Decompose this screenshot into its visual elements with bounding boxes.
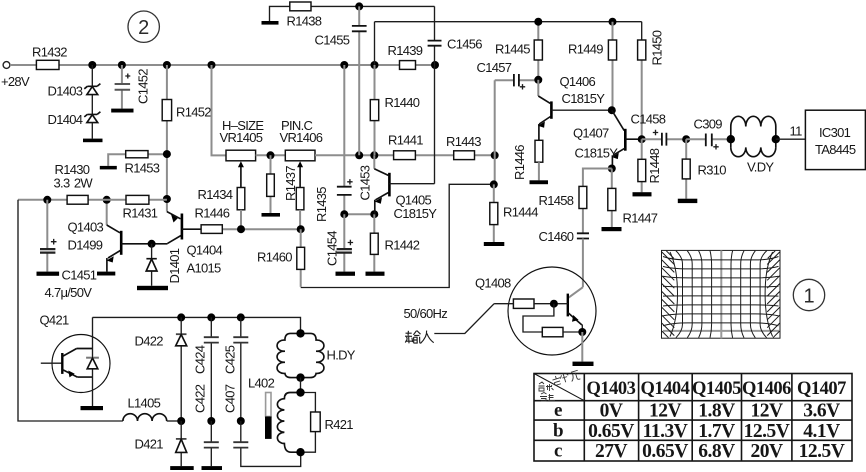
svg-text:50/60Hz: 50/60Hz <box>404 306 448 321</box>
svg-text:R310: R310 <box>698 163 727 178</box>
wire base line y=229 Q1404 <box>222 228 300 230</box>
node R1435/R1460 dot <box>297 225 305 233</box>
node C1457/R1444/base-line dot <box>490 180 498 188</box>
svg-text:R1453: R1453 <box>125 161 160 176</box>
table header diagonal text 管脚号 <box>552 369 581 386</box>
ground for C1451 <box>37 272 60 276</box>
node 50/60Hz input <box>404 304 495 334</box>
diode D1401 <box>146 244 182 286</box>
resistor R1442 <box>370 214 419 271</box>
node circled 2 marker <box>128 11 159 42</box>
node R1437 tap <box>267 151 275 159</box>
ground for R1444 <box>484 242 505 246</box>
node V.DY right dot <box>772 135 780 143</box>
node dots on y=317.4 rail <box>177 313 245 321</box>
resistor R1432 <box>32 45 67 70</box>
resistor R310 <box>682 139 726 199</box>
pincushion raster pattern <box>662 250 781 338</box>
capacitor C1458 <box>631 112 687 146</box>
svg-text:11: 11 <box>790 124 803 139</box>
capacitor C1452 <box>115 65 151 109</box>
node Q1403 collector dot <box>103 196 111 204</box>
svg-text:20V: 20V <box>750 441 783 462</box>
node R1445 top dot <box>534 18 542 26</box>
resistor R421 <box>301 393 353 453</box>
svg-text:Q1403: Q1403 <box>68 220 104 235</box>
table row e values <box>600 401 841 422</box>
resistor R1439 <box>388 43 423 69</box>
ground for Q421 <box>81 406 104 410</box>
wire VR1405 to VR1406 <box>256 154 286 156</box>
svg-text:R1460: R1460 <box>257 250 292 265</box>
ground for Q1403 emitter <box>97 272 115 276</box>
ground for R1453 <box>100 166 117 170</box>
capacitor C1451 4.7u/50V <box>40 200 97 300</box>
svg-text:R1438: R1438 <box>287 14 322 29</box>
resistor R1434 <box>198 187 245 229</box>
wire C1453 to R1442 y=214 <box>344 213 374 215</box>
transistor Q1407 C1815Y <box>573 110 642 168</box>
svg-text:C1451: C1451 <box>62 268 97 283</box>
svg-text:Q1407: Q1407 <box>797 379 846 399</box>
capacitor C1457 <box>477 60 539 90</box>
svg-text:Q1406: Q1406 <box>560 74 596 89</box>
svg-text:0.65V: 0.65V <box>588 421 634 442</box>
table header diagonal text 各极电压 <box>539 382 556 401</box>
svg-text:b: b <box>553 421 563 442</box>
svg-text:3.3 2W: 3.3 2W <box>54 176 94 191</box>
node H.DY top dot <box>296 329 304 337</box>
ground for D1401 <box>137 286 168 290</box>
zener diode D1403 <box>48 65 101 114</box>
resistor R1435 <box>296 187 329 229</box>
ground for C1452 <box>111 109 133 113</box>
svg-text:D422: D422 <box>135 334 164 349</box>
capacitor C1460 <box>539 229 590 287</box>
wire y=21.7 rail <box>375 21 642 23</box>
svg-text:C1815Y: C1815Y <box>575 146 619 161</box>
svg-text:Q1405: Q1405 <box>692 379 741 399</box>
node C1458/R310 dot <box>682 135 690 143</box>
resistor R1460 <box>257 229 305 287</box>
svg-text:H.DY: H.DY <box>327 348 356 363</box>
resistor R1450 <box>638 22 665 140</box>
svg-text:12.5V: 12.5V <box>744 421 790 442</box>
svg-text:Q1406: Q1406 <box>742 379 791 399</box>
transistor Q1405 C1815Y <box>374 155 437 221</box>
svg-text:12V: 12V <box>750 401 783 422</box>
potentiometer VR1406 PIN.C <box>280 118 323 188</box>
ground for R1438 <box>262 21 279 25</box>
L402 tuning core <box>265 393 272 439</box>
svg-text:12.5V: 12.5V <box>799 441 845 462</box>
svg-text:Q1403: Q1403 <box>587 379 636 399</box>
svg-text:6.8V: 6.8V <box>698 441 735 462</box>
text 输入 (drawn glyphs) <box>405 331 434 344</box>
svg-text:R1443: R1443 <box>446 134 481 149</box>
ground for R1447 <box>602 227 622 231</box>
ground for Q1408 <box>573 362 594 366</box>
wire C1460 to Q1408 collector <box>568 287 583 298</box>
svg-text:R1434: R1434 <box>198 187 233 202</box>
resistor R1430 3.3 2W <box>54 162 94 204</box>
svg-text:12V: 12V <box>649 401 682 422</box>
node circled 1 marker <box>793 279 824 310</box>
svg-text:R1435: R1435 <box>314 187 329 222</box>
svg-text:V.DY: V.DY <box>747 160 774 175</box>
svg-text:D1403: D1403 <box>48 84 83 99</box>
capacitor C422 <box>193 384 219 466</box>
svg-text:R421: R421 <box>325 417 354 432</box>
svg-text:R1446: R1446 <box>195 206 230 221</box>
wire collector rail y=317.4 <box>93 317 301 333</box>
svg-text:R1452: R1452 <box>176 105 211 120</box>
svg-text:VR1405: VR1405 <box>220 130 263 145</box>
svg-text:Q421: Q421 <box>40 313 69 328</box>
node L402 top dot <box>296 388 304 396</box>
node L402 bottom dot <box>296 448 304 456</box>
table header transistor names <box>587 379 847 399</box>
svg-text:27V: 27V <box>595 441 628 462</box>
resistor R1440 <box>370 65 419 155</box>
resistor R1444 <box>490 184 538 242</box>
ground for Q1406 R1446 <box>530 180 549 184</box>
resistor R1441 <box>388 133 423 160</box>
node H.DY bottom dot <box>296 373 304 381</box>
wire H.DY to L402 winding <box>300 378 302 393</box>
resistor inside Q1408 (feedback) <box>542 327 582 336</box>
resistor R1446 (Q1406 emitter) <box>512 140 543 180</box>
node Q1407 collector dot <box>638 135 646 143</box>
resistor R1443 <box>446 134 481 160</box>
svg-text:1.8V: 1.8V <box>698 401 735 422</box>
svg-text:R1444: R1444 <box>503 205 538 220</box>
svg-text:R1440: R1440 <box>385 95 420 110</box>
capacitor C407 <box>223 384 301 466</box>
potentiometer VR1405 H-SIZE <box>220 118 265 188</box>
node R1449 top dot <box>609 18 617 26</box>
wire Q1408 emitter to ground <box>581 332 583 362</box>
svg-text:1: 1 <box>803 286 814 308</box>
wire C1457 left column down to R1444 <box>494 80 496 184</box>
svg-text:C1454: C1454 <box>325 231 340 266</box>
resistor R1437 <box>267 155 298 213</box>
svg-text:c: c <box>554 441 562 462</box>
svg-text:R1439: R1439 <box>388 43 423 58</box>
capacitor C1456 <box>428 6 483 183</box>
svg-text:C1452: C1452 <box>136 69 151 104</box>
svg-text:TA8445: TA8445 <box>815 142 856 157</box>
wire y=155 line to R1441/R1443 <box>315 154 495 156</box>
resistor R1431 <box>123 195 158 220</box>
node Q1408 base dot <box>550 300 558 308</box>
svg-text:R1450: R1450 <box>650 30 665 65</box>
wire R1430 line y=199.8 <box>18 199 167 201</box>
svg-text:R1458: R1458 <box>539 193 574 208</box>
node R1434 bottom dot <box>237 225 245 233</box>
svg-text:D1499: D1499 <box>68 238 103 253</box>
node R1431 right dot <box>163 195 171 203</box>
svg-text:Q1404: Q1404 <box>641 379 690 399</box>
svg-text:e: e <box>554 400 562 421</box>
ground for C1454 <box>336 272 356 276</box>
table voltage chart <box>534 374 852 462</box>
resistor R1458 <box>539 169 612 233</box>
svg-text:C1453: C1453 <box>358 165 373 200</box>
node dots on y=421 rail <box>177 417 245 425</box>
node Q1408 emitter dot <box>578 328 586 336</box>
capacitor C424 <box>193 317 219 421</box>
table row c values <box>595 441 845 462</box>
wire left rail from R1430 to L1405 <box>18 200 123 421</box>
svg-text:3.6V: 3.6V <box>803 401 840 422</box>
svg-text:R1442: R1442 <box>385 238 420 253</box>
svg-text:C1457: C1457 <box>477 60 512 75</box>
svg-text:A1015: A1015 <box>187 261 222 276</box>
transistor Q1408 internal <box>554 294 582 332</box>
svg-text:Q1404: Q1404 <box>187 243 223 258</box>
wire VR1405 feed from rail <box>212 65 227 155</box>
inductor L1405 <box>123 396 181 422</box>
transistor Q421 circled with damper <box>40 313 111 393</box>
svg-text:D421: D421 <box>135 437 164 452</box>
svg-text:C422: C422 <box>193 384 208 413</box>
resistor inside Q1408 (base) <box>494 299 554 308</box>
wire +28V rail y=65 <box>10 64 435 66</box>
wire R1460 bottom loop to Q1405 base net <box>301 184 493 287</box>
svg-text:2: 2 <box>138 17 149 39</box>
svg-text:C1456: C1456 <box>447 37 482 52</box>
svg-text:4.7μ/50V: 4.7μ/50V <box>45 285 93 300</box>
svg-text:R1447: R1447 <box>623 211 658 226</box>
node junction dots on +28V rail <box>88 61 439 69</box>
svg-text:C1460: C1460 <box>539 229 574 244</box>
transistor Q1406 C1815Y <box>538 74 612 140</box>
capacitor C1455 <box>315 6 367 155</box>
svg-text:C407: C407 <box>223 384 238 413</box>
wire V.DY to IC301 pin 11 <box>776 124 806 140</box>
svg-text:Q1407: Q1407 <box>573 126 609 141</box>
svg-text:1.7V: 1.7V <box>698 421 735 442</box>
node V.DY left dot <box>727 135 735 143</box>
node +28V input terminal <box>1 62 30 89</box>
svg-text:C1815Y: C1815Y <box>562 91 606 106</box>
node Q1403 base / D1401 dot <box>148 240 156 248</box>
svg-text:R1446: R1446 <box>512 145 527 180</box>
diode damper inside Q421 <box>86 317 99 406</box>
ground for R1442 <box>366 272 385 276</box>
ground for C422 <box>202 466 223 470</box>
svg-text:VR1406: VR1406 <box>280 130 323 145</box>
svg-text:D1401: D1401 <box>167 248 182 283</box>
ground for D421 <box>170 466 194 470</box>
resistor R1448 <box>638 139 662 192</box>
table row labels e b c <box>553 400 563 462</box>
capacitor C1453 <box>337 65 373 214</box>
resistor R1445 <box>495 22 542 80</box>
svg-text:C425: C425 <box>223 345 238 374</box>
node R1442 dot <box>370 210 378 218</box>
node Q1407 emitter dot <box>608 165 616 173</box>
svg-text:C309: C309 <box>694 117 723 132</box>
IC U IC301 TA8445 <box>805 110 865 169</box>
transistor Q1403 D1499 <box>68 200 152 272</box>
table row b values <box>588 421 840 442</box>
svg-text:4.1V: 4.1V <box>803 421 840 442</box>
svg-text:0.65V: 0.65V <box>642 441 688 462</box>
svg-text:R1449: R1449 <box>568 42 603 57</box>
svg-text:R1441: R1441 <box>388 133 423 148</box>
wire top rail y=6.4 to C1456 column <box>359 5 434 7</box>
svg-text:L402: L402 <box>248 376 275 391</box>
transistor Q421 internal <box>41 349 93 378</box>
capacitor C425 <box>223 317 249 421</box>
svg-text:D1404: D1404 <box>48 112 83 127</box>
svg-text:11.3V: 11.3V <box>643 421 688 442</box>
node C1454 dot <box>340 210 348 218</box>
resistor R1452 <box>162 65 211 199</box>
svg-text:Q1408: Q1408 <box>475 276 511 291</box>
resistor R1446 (Q1404 base) <box>195 206 230 234</box>
inductor H.DY horizontal yoke <box>277 333 356 377</box>
ground for R1448 <box>633 192 652 196</box>
node R1445/C1457 dot <box>534 76 542 84</box>
transistor Q1408 circled <box>475 267 596 355</box>
svg-text:R1431: R1431 <box>123 206 158 221</box>
diode D422 <box>135 317 187 421</box>
node Q1406 base dot <box>608 106 616 114</box>
svg-text:R1432: R1432 <box>32 45 67 60</box>
transistor Q1404 A1015 <box>152 199 223 276</box>
svg-text:IC301: IC301 <box>819 125 851 140</box>
ground for R310 <box>678 199 698 203</box>
node C1455 top dot <box>355 2 363 10</box>
ground for R1437 <box>262 213 281 217</box>
inductor V.DY deflection yoke <box>731 116 776 174</box>
diode D421 <box>135 421 187 466</box>
svg-text:C1455: C1455 <box>315 33 350 48</box>
wire Q1408 feedback loop <box>523 304 554 332</box>
inductor L402 winding <box>248 376 301 453</box>
resistor R1453 <box>108 151 167 176</box>
node R1452/R1453 junction <box>163 150 171 158</box>
zener diode D1404 <box>48 112 101 139</box>
resistor R1447 <box>608 169 658 228</box>
svg-text:+28V: +28V <box>1 74 30 89</box>
svg-text:C1815Y: C1815Y <box>394 206 438 221</box>
wire R1440 top column <box>374 22 376 65</box>
ground for D1404 <box>83 139 103 143</box>
capacitor C1454 <box>325 214 354 271</box>
svg-text:0V: 0V <box>600 401 623 422</box>
node C1455 bottom / R1440 bottom dots <box>355 151 499 159</box>
resistor R1438 <box>270 2 360 29</box>
svg-text:R1448: R1448 <box>647 148 662 183</box>
svg-text:C1458: C1458 <box>631 112 666 127</box>
svg-text:R1445: R1445 <box>495 42 530 57</box>
resistor R1449 <box>568 22 617 111</box>
svg-text:C424: C424 <box>193 345 208 374</box>
svg-text:L1405: L1405 <box>128 396 161 411</box>
node C1451 tap dot <box>43 196 51 204</box>
capacitor C309 <box>686 117 731 150</box>
